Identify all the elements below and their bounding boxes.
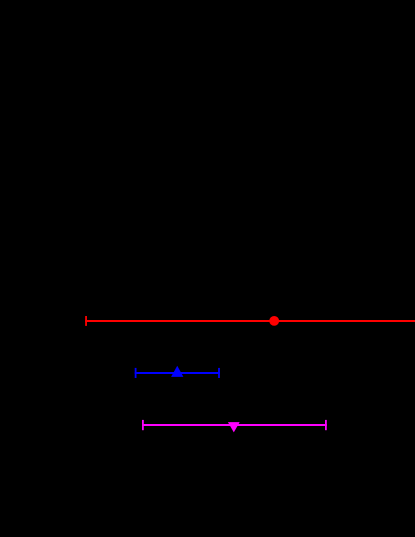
red circle marker [269, 316, 279, 326]
red errorbar horizontal line (runs off right edge) [85, 320, 415, 322]
blue errorbar left cap [135, 368, 137, 378]
blue errorbar horizontal line [135, 372, 220, 374]
magenta errorbar left cap [142, 420, 144, 430]
magenta errorbar horizontal line [142, 424, 327, 426]
magenta triangle-down marker [228, 422, 240, 432]
blue errorbar right cap [218, 368, 220, 378]
blue triangle-up marker [171, 366, 183, 377]
red errorbar left cap [85, 316, 87, 326]
magenta errorbar right cap [325, 420, 327, 430]
